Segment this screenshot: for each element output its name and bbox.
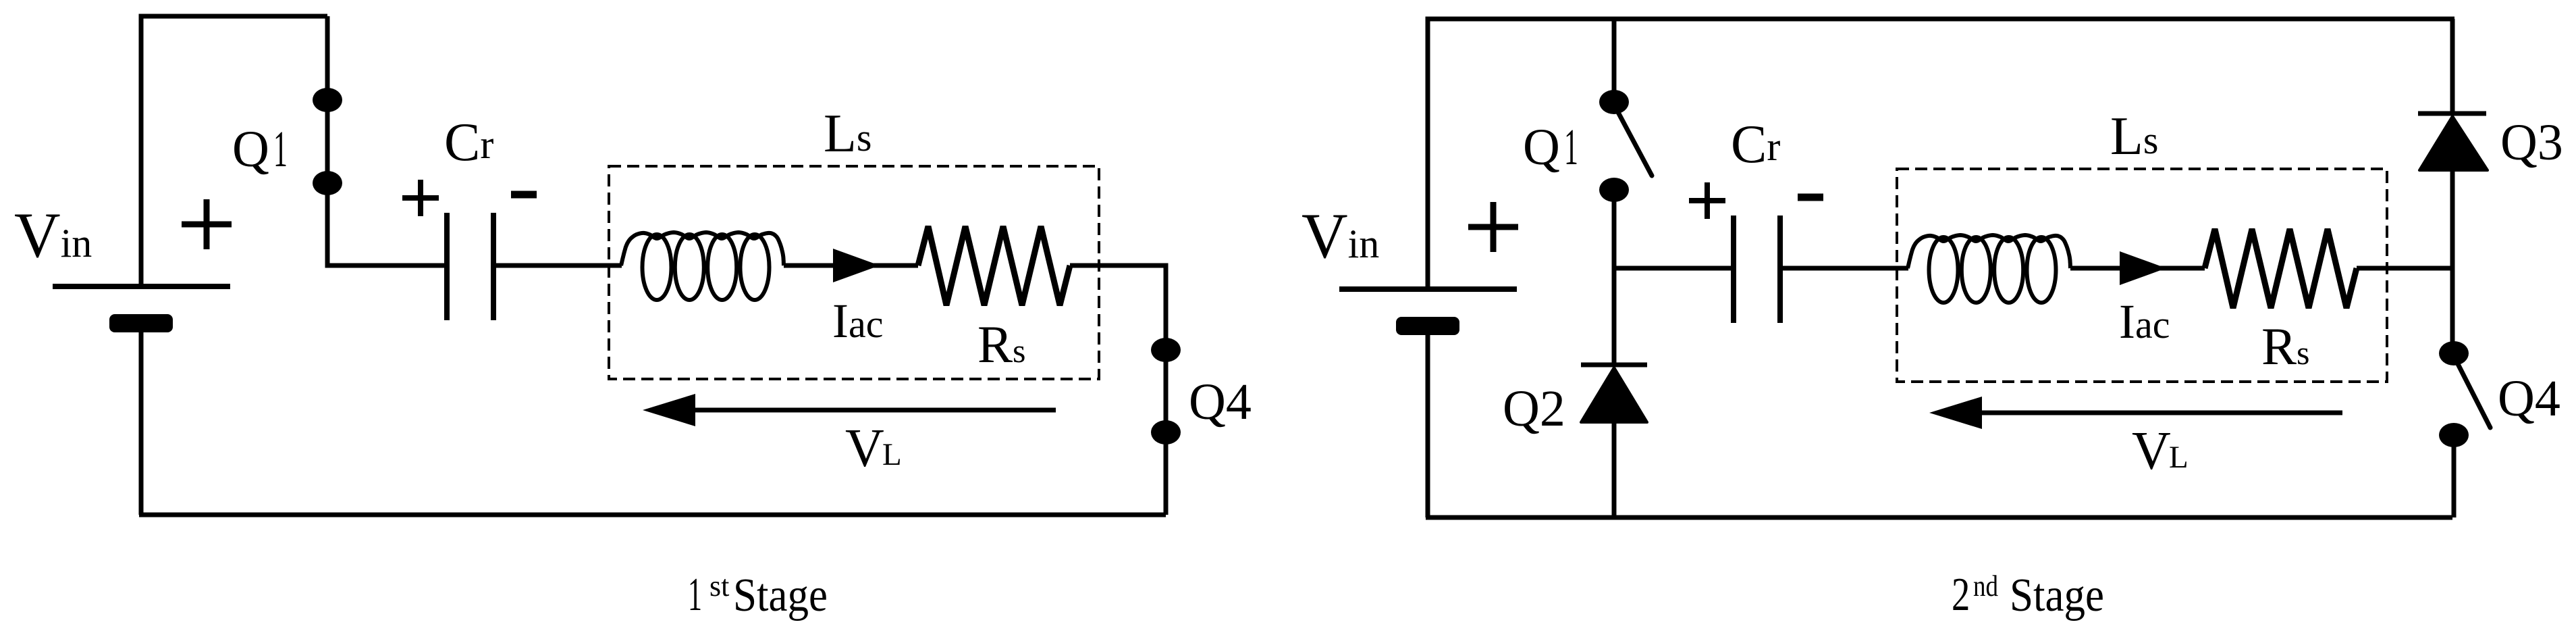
current arrow Iac (right) (2120, 251, 2166, 285)
svg-text:Ls: Ls (824, 104, 871, 163)
current arrow Iac (left) (833, 249, 880, 282)
capacitor Cr left plate (left) (444, 213, 450, 320)
svg-text:nd: nd (1973, 569, 1998, 603)
svg-text:Q2: Q2 (1503, 380, 1565, 437)
svg-text:Stage: Stage (2010, 569, 2104, 622)
dashed box around Ls and Rs (right) (1897, 169, 2387, 382)
diode Q2 triangle (right) (1581, 368, 1647, 422)
svg-text:Vin: Vin (14, 199, 92, 271)
polarity + of Cr (left) (402, 180, 439, 216)
svg-text:1: 1 (688, 569, 702, 620)
capacitor Cr right plate (right) (1777, 216, 1783, 323)
switch Q4 (open) upper contact dot (right) (2439, 341, 2469, 365)
svg-text:L: L (882, 437, 902, 472)
polarity + of Vin (right) (1468, 202, 1518, 252)
switch Q4 (closed) upper contact dot (left) (1151, 338, 1181, 362)
wire: node A to capacitor Cr (left) (327, 263, 444, 265)
wire: top rail from Vin to diode Q3 (right) (1428, 19, 2454, 286)
svg-text:Q: Q (1523, 119, 1560, 176)
polarity + of Cr (right) (1689, 182, 1725, 219)
inductor Ls coil (right) (1929, 237, 1958, 303)
wire: node B down to diode Q2 (right) (1612, 268, 1617, 365)
svg-text:L: L (2169, 440, 2189, 475)
capacitor Cr right plate (left) (491, 213, 496, 320)
switch Q1 (closed) lower contact dot (313, 171, 342, 195)
switch Q4 (open) lower contact dot (right) (2439, 423, 2469, 447)
wire: right branch vertical through Q4 (left) (1164, 265, 1169, 515)
svg-text:1: 1 (273, 121, 288, 178)
source Vin battery negative plate (left) (109, 314, 173, 332)
switch Q1 (closed) upper contact dot (313, 88, 342, 112)
wire: inductor Ls to resistor Rs (left) (784, 263, 918, 268)
switch Q4 (open) blade (right) (2454, 356, 2490, 428)
svg-text:Q4: Q4 (2498, 370, 2560, 427)
diode Q3 cathode bar (right) (2418, 111, 2486, 116)
svg-text:Cr: Cr (1731, 115, 1780, 174)
svg-text:Ls: Ls (2110, 107, 2158, 166)
svg-text:Cr: Cr (444, 113, 493, 172)
wire: Vin negative terminal down to bottom rail (right) (1426, 335, 1430, 517)
source Vin battery positive plate (right) (1339, 286, 1517, 292)
wire: resistor Rs to right branch node C (right) (2357, 266, 2452, 271)
resistor Rs zigzag (left) (918, 226, 1070, 305)
svg-text:Q3: Q3 (2500, 114, 2563, 171)
svg-text:Stage: Stage (733, 569, 828, 622)
polarity - of Cr (right) (1798, 194, 1823, 201)
svg-text:2: 2 (1952, 568, 1970, 621)
svg-text:V: V (2132, 422, 2171, 481)
switch Q1 (open) blade (right) (1614, 105, 1652, 176)
inductor Ls coil (left) (643, 234, 672, 300)
switch Q1 (open) lower contact dot (right) (1599, 178, 1629, 202)
wire: capacitor Cr to inductor Ls (left) (496, 263, 622, 268)
wire: bottom rail (right) (1426, 515, 2452, 520)
wire: Vin negative terminal down to bottom rail (left) (139, 332, 144, 515)
dashed box around Ls and Rs (left) (609, 166, 1099, 379)
svg-text:V: V (845, 419, 884, 478)
wire: Q1 branch from top rail to switch (right) (1612, 19, 1617, 102)
wire: switch Q1 to node B and capacitor Cr (right) (1614, 190, 1731, 268)
wire: Vin positive terminal up and across top to Q1 (left) (141, 16, 327, 284)
svg-text:Rs: Rs (977, 315, 1026, 374)
svg-text:Vin: Vin (1302, 200, 1379, 272)
wire: inductor Ls to resistor Rs (right) (2070, 266, 2205, 271)
svg-text:st: st (709, 569, 729, 603)
wire: diode Q3 anode down through node C to switch Q4 (right) (2450, 170, 2455, 356)
wire: top rail down to diode Q3 cathode (right) (2450, 19, 2455, 111)
diode Q2 cathode bar (right) (1581, 363, 1647, 368)
load voltage arrow VL (right) (1982, 411, 2342, 415)
source Vin battery positive plate (left) (53, 284, 230, 289)
polarity - of Cr (left) (511, 191, 537, 199)
source Vin battery negative plate (right) (1396, 317, 1459, 335)
capacitor Cr left plate (right) (1731, 216, 1736, 323)
wire: switch Q4 to bottom rail (right) (2452, 435, 2457, 517)
wire: diode Q2 anode down to bottom rail (right) (1612, 422, 1617, 517)
svg-text:Iac: Iac (832, 294, 883, 348)
wire: resistor Rs to right branch corner (left) (1070, 265, 1166, 268)
svg-text:Q4: Q4 (1189, 374, 1252, 430)
load voltage arrow VL (left) (695, 408, 1056, 413)
switch Q1 (open) upper contact dot (right) (1599, 90, 1629, 114)
svg-text:Rs: Rs (2261, 317, 2310, 376)
switch Q4 (closed) lower contact dot (left) (1151, 420, 1181, 445)
wire: bottom rail (left) (139, 513, 1166, 517)
svg-text:1: 1 (1564, 119, 1578, 176)
polarity + of Vin (left) (182, 199, 232, 249)
wire: capacitor Cr to inductor Ls (right) (1783, 266, 1908, 271)
diode Q3 triangle (right) (2419, 116, 2488, 170)
wire: Q1 branch vertical down to node A (left) (325, 16, 330, 265)
svg-text:Q: Q (232, 121, 269, 178)
svg-text:Iac: Iac (2119, 295, 2170, 349)
resistor Rs zigzag (right) (2205, 229, 2357, 308)
